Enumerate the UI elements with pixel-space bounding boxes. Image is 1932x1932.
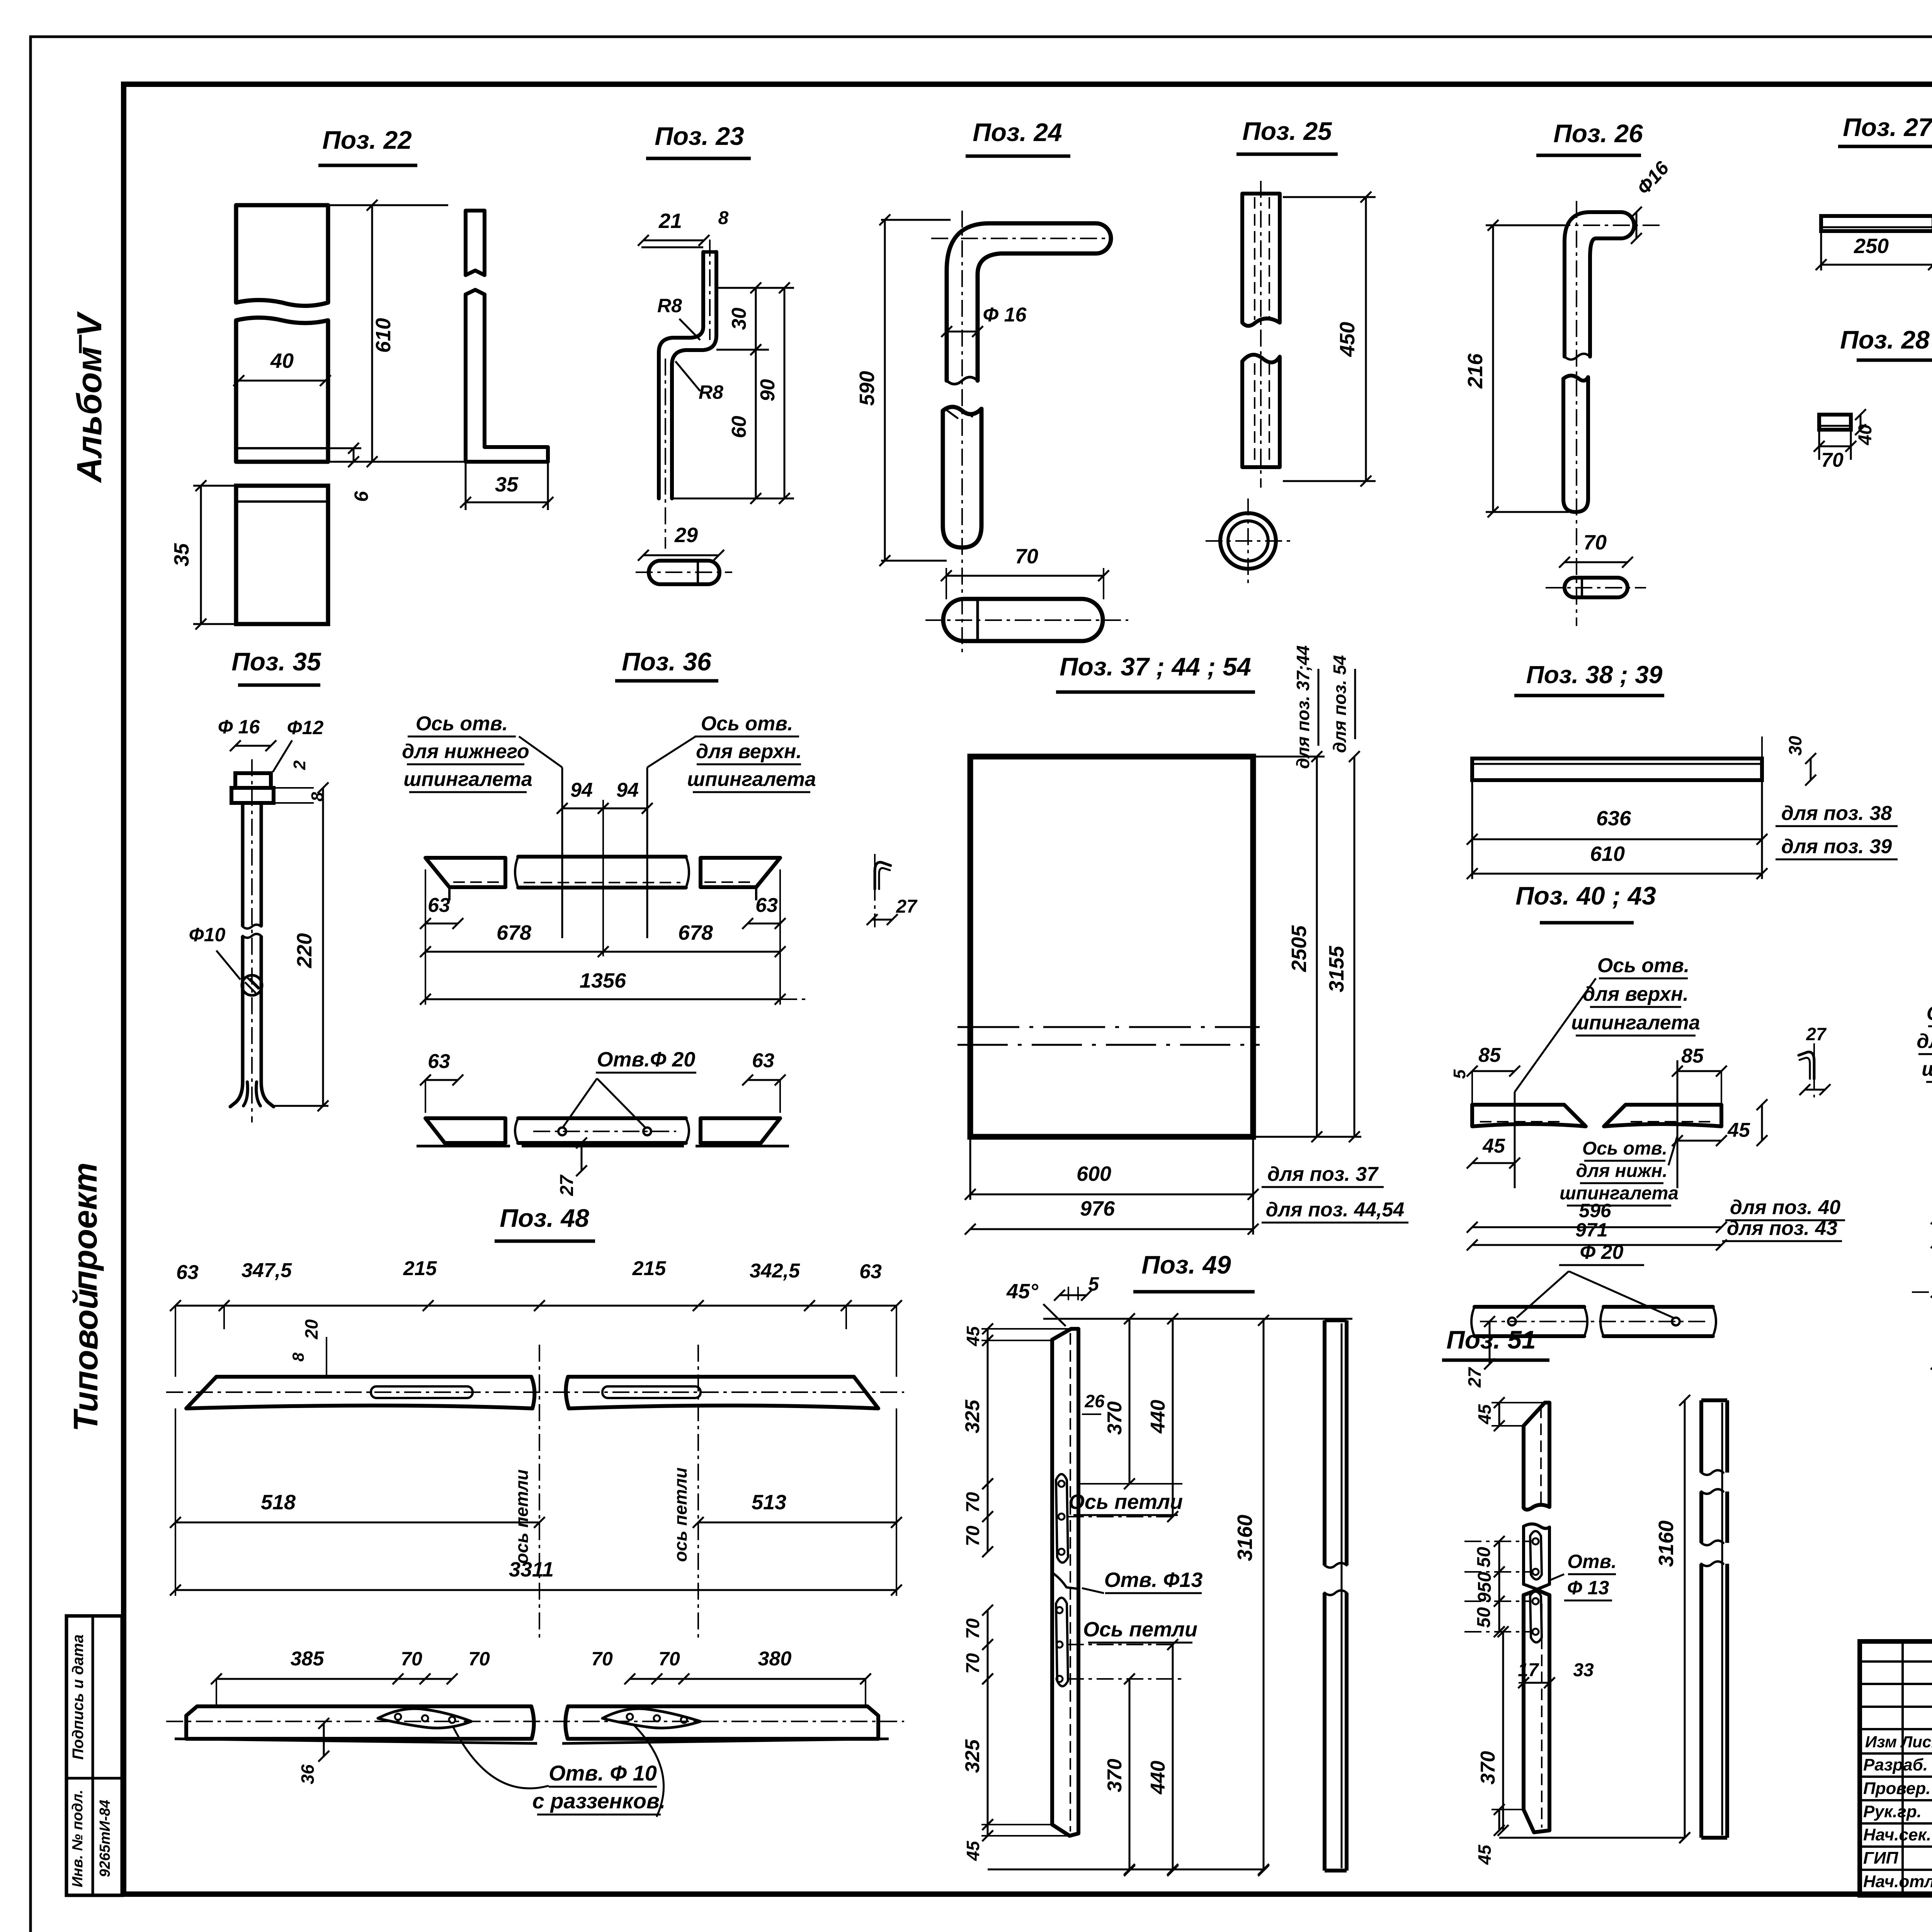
pos 48 upper strip left half bbox=[186, 1377, 534, 1408]
svg-text:Лист: Лист bbox=[1900, 1733, 1932, 1751]
svg-text:35: 35 bbox=[495, 473, 519, 496]
svg-text:для поз. 43: для поз. 43 bbox=[1727, 1217, 1837, 1240]
pos 51 dim 45 top bbox=[1498, 1403, 1500, 1426]
pos 51 dim 370 lower bbox=[1502, 1632, 1504, 1830]
pos 48 dim 518 bbox=[175, 1408, 176, 1596]
pos 23 bottom oval bbox=[649, 561, 719, 584]
pos 36 angle section icon bbox=[875, 862, 891, 889]
pos 49 dims 70 70 upper bbox=[987, 1484, 989, 1552]
pos 49 dims 70 70 lower bbox=[987, 1610, 989, 1679]
pos 26 dim 216 bbox=[1486, 224, 1565, 226]
svg-text:ось петли: ось петли bbox=[670, 1468, 690, 1562]
pos 48 upper strip center line bbox=[166, 1391, 904, 1393]
pos 40 dim 27 bottom bbox=[1489, 1321, 1491, 1364]
svg-text:3160: 3160 bbox=[1655, 1520, 1678, 1567]
svg-text:70: 70 bbox=[963, 1526, 983, 1546]
svg-text:325: 325 bbox=[961, 1400, 984, 1434]
svg-text:513: 513 bbox=[752, 1491, 786, 1514]
svg-text:2505: 2505 bbox=[1287, 925, 1311, 972]
svg-text:370: 370 bbox=[1477, 1751, 1499, 1785]
svg-text:для поз. 44,54: для поз. 44,54 bbox=[1266, 1199, 1405, 1221]
pos 25 pipe center line bbox=[1260, 181, 1262, 488]
svg-text:45: 45 bbox=[1475, 1844, 1495, 1865]
pos 23 dim 21 bbox=[641, 247, 703, 248]
svg-text:Подпись и дата: Подпись и дата bbox=[70, 1634, 87, 1760]
pos 37 sheet rectangle bbox=[970, 757, 1253, 1137]
pos 51 bottom dim line bbox=[1499, 1837, 1685, 1839]
svg-text:Поз. 23: Поз. 23 bbox=[655, 122, 744, 150]
title block signature table verticals bbox=[1901, 1641, 1904, 1895]
pos 25 pipe upper segment bbox=[1242, 194, 1280, 326]
svg-text:6: 6 bbox=[350, 491, 372, 502]
svg-text:Ф 16: Ф 16 bbox=[983, 304, 1027, 326]
svg-text:Нач.отл: Нач.отл bbox=[1863, 1872, 1932, 1891]
svg-text:342,5: 342,5 bbox=[750, 1260, 800, 1282]
svg-text:33: 33 bbox=[1573, 1660, 1594, 1680]
pos 49 dim 325 lower bbox=[987, 1679, 989, 1825]
svg-text:8: 8 bbox=[718, 208, 729, 228]
pos 35 dim 220 bbox=[274, 796, 328, 796]
pos 38 dim 636 bbox=[1471, 780, 1473, 879]
svg-text:636: 636 bbox=[1596, 807, 1631, 830]
svg-text:для нижнего: для нижнего bbox=[1917, 1030, 1932, 1053]
svg-text:21: 21 bbox=[658, 209, 682, 233]
svg-text:976: 976 bbox=[1080, 1197, 1115, 1220]
pos 35 bolt flange bbox=[231, 788, 274, 803]
svg-text:проект: проект bbox=[66, 1162, 104, 1291]
svg-text:3311: 3311 bbox=[509, 1558, 554, 1581]
pos 40 dim 45 right bbox=[1761, 1105, 1763, 1141]
svg-text:45: 45 bbox=[1475, 1404, 1495, 1425]
svg-text:63: 63 bbox=[859, 1260, 882, 1283]
svg-text:8: 8 bbox=[289, 1352, 307, 1362]
svg-text:215: 215 bbox=[632, 1257, 667, 1280]
pos 24 rod lower segment bbox=[943, 407, 981, 548]
pos 49 dim 370 upper bbox=[1129, 1319, 1131, 1484]
svg-text:Разраб.: Разраб. bbox=[1863, 1755, 1928, 1774]
pos 24 rod top break bbox=[947, 377, 978, 384]
pos 48 lower strip center line bbox=[166, 1721, 904, 1722]
pos 36 top strip middle bbox=[518, 855, 686, 859]
svg-text:27: 27 bbox=[557, 1174, 577, 1196]
svg-text:шпингалета: шпингалета bbox=[687, 768, 816, 791]
svg-text:70: 70 bbox=[658, 1648, 680, 1670]
pos 38 dim 610 bbox=[1472, 873, 1762, 875]
pos 35 fork prongs bbox=[230, 1082, 243, 1107]
pos 40 dim 596 bbox=[1472, 1226, 1721, 1228]
pos 49 dim 45 top bbox=[987, 1329, 989, 1340]
pos 37 break lines bbox=[957, 1026, 1260, 1028]
svg-text:Ф 20: Ф 20 bbox=[1580, 1241, 1624, 1264]
svg-text:70: 70 bbox=[963, 1492, 983, 1513]
svg-text:70: 70 bbox=[963, 1618, 983, 1639]
svg-text:440: 440 bbox=[1147, 1400, 1169, 1434]
svg-text:30: 30 bbox=[1785, 736, 1805, 756]
pos 40 strip left part bbox=[1472, 1105, 1586, 1126]
pos 22 angle bar upper part bbox=[466, 211, 485, 275]
pos 35 bolt head bbox=[235, 773, 271, 788]
pos 36 dim 63 top right bbox=[748, 923, 780, 925]
pos 22 dim 6 right bbox=[328, 447, 361, 449]
pos 26 dim f16 bbox=[1636, 212, 1638, 238]
svg-text:9265тИ-84: 9265тИ-84 bbox=[97, 1800, 113, 1878]
svg-text:для поз. 54: для поз. 54 bbox=[1330, 655, 1350, 753]
svg-text:70: 70 bbox=[591, 1648, 613, 1670]
svg-text:Отв.Ф 20: Отв.Ф 20 bbox=[597, 1048, 696, 1071]
svg-text:Поз. 22: Поз. 22 bbox=[322, 126, 412, 154]
pos 24 center lines bbox=[961, 211, 963, 657]
svg-text:971: 971 bbox=[1575, 1219, 1607, 1241]
svg-text:Инв. № подл.: Инв. № подл. bbox=[70, 1790, 86, 1888]
pos 51 left stile hinge segment bbox=[1524, 1524, 1549, 1589]
pos 24 dim 590 bbox=[881, 219, 951, 221]
pos 51 right bar segments bbox=[1701, 1398, 1727, 1402]
pos 38 dim 30 bbox=[1761, 736, 1763, 759]
svg-text:40: 40 bbox=[1855, 424, 1876, 446]
svg-text:70: 70 bbox=[468, 1648, 490, 1670]
svg-text:Изм: Изм bbox=[1865, 1733, 1897, 1751]
pos 48 top dim row bbox=[175, 1305, 896, 1307]
svg-text:Ось отв.: Ось отв. bbox=[416, 713, 508, 735]
pos 36 bottom strip right block bbox=[701, 1118, 780, 1143]
svg-text:Провер.: Провер. bbox=[1863, 1779, 1930, 1798]
svg-text:27: 27 bbox=[1806, 1024, 1827, 1044]
svg-text:Поз. 40 ; 43: Поз. 40 ; 43 bbox=[1515, 881, 1656, 910]
pos 40 dim 45 left bbox=[1472, 1126, 1473, 1159]
svg-text:Поз. 37 ; 44 ; 54: Поз. 37 ; 44 ; 54 bbox=[1060, 652, 1251, 681]
pos 48 dim 3311 bbox=[175, 1589, 896, 1591]
svg-text:45: 45 bbox=[1482, 1135, 1505, 1157]
svg-text:94: 94 bbox=[570, 779, 593, 801]
pos 49 upper hinge slot bbox=[1056, 1474, 1068, 1563]
pos 36 dim 1356 bbox=[425, 998, 780, 1000]
svg-text:60: 60 bbox=[728, 416, 750, 438]
svg-text:70: 70 bbox=[1015, 545, 1038, 568]
svg-text:380: 380 bbox=[758, 1648, 792, 1670]
svg-text:с раззенков.: с раззенков. bbox=[532, 1789, 666, 1813]
svg-text:1356: 1356 bbox=[580, 969, 626, 992]
pos 49 dim 440 lower bbox=[1172, 1645, 1174, 1871]
svg-text:Альбом V: Альбом V bbox=[70, 311, 109, 483]
pos 35 bolt shaft lower bbox=[241, 936, 245, 1082]
pos 51 left stile upper segment bbox=[1524, 1403, 1549, 1510]
pos 49 mid notch and leader bbox=[1052, 1573, 1078, 1589]
pos 23 strip center line bbox=[709, 240, 711, 340]
svg-text:385: 385 bbox=[291, 1648, 325, 1670]
pos 40 axes bbox=[1514, 1092, 1516, 1188]
pos 22 dim 40 bbox=[239, 380, 325, 382]
svg-text:600: 600 bbox=[1077, 1162, 1111, 1185]
svg-text:2: 2 bbox=[290, 760, 309, 770]
svg-text:36: 36 bbox=[298, 1764, 318, 1784]
pos 49 dim 440 upper bbox=[1172, 1319, 1174, 1517]
svg-text:85: 85 bbox=[1478, 1044, 1501, 1066]
svg-text:370: 370 bbox=[1104, 1401, 1126, 1435]
svg-text:220: 220 bbox=[293, 933, 316, 968]
svg-text:63: 63 bbox=[755, 894, 778, 917]
svg-text:29: 29 bbox=[674, 524, 698, 547]
svg-text:215: 215 bbox=[403, 1257, 437, 1280]
svg-text:63: 63 bbox=[428, 894, 450, 917]
pos 51 lower hinge segment bbox=[1524, 1590, 1549, 1832]
pos 22 dim 610 bbox=[328, 204, 448, 206]
pos 23 dim 29 bbox=[643, 554, 719, 556]
pos 28 small bar bbox=[1819, 415, 1851, 430]
pos 40 icon dim 27 bbox=[1805, 1089, 1825, 1091]
svg-text:347,5: 347,5 bbox=[241, 1259, 292, 1282]
pos 26 rod lower segment bbox=[1563, 376, 1588, 512]
pos 40 bottom strip left bbox=[1475, 1305, 1584, 1309]
pos 26 rod hook bbox=[1565, 212, 1621, 357]
bottom-left stamp table bbox=[66, 1616, 122, 1895]
pos 28 dim 40 bbox=[1860, 415, 1862, 430]
pos 48 dim 513 bbox=[698, 1522, 896, 1524]
pos 49 dim 325 upper bbox=[987, 1340, 989, 1484]
pos 49 lower hinge slot bbox=[1056, 1598, 1068, 1686]
svg-text:Ось отв.: Ось отв. bbox=[1582, 1138, 1667, 1159]
svg-text:Поз. 28: Поз. 28 bbox=[1840, 325, 1930, 354]
pos 40 strip right part bbox=[1604, 1105, 1721, 1126]
pos 22 plate lower segment bbox=[236, 486, 328, 624]
svg-text:Ось петли: Ось петли bbox=[1083, 1618, 1197, 1641]
svg-text:45°: 45° bbox=[1006, 1280, 1038, 1303]
svg-text:для поз. 40: для поз. 40 bbox=[1730, 1196, 1840, 1219]
svg-text:45: 45 bbox=[963, 1840, 983, 1861]
pos 26 bottom oval bbox=[1565, 578, 1628, 597]
svg-text:шпингалета: шпингалета bbox=[403, 768, 532, 791]
svg-text:63: 63 bbox=[752, 1049, 774, 1072]
svg-text:Нач.сек.: Нач.сек. bbox=[1863, 1825, 1931, 1844]
pos 22 angle bar lower part with foot bbox=[466, 290, 548, 462]
pos 36 dim 678 678 bbox=[425, 951, 780, 953]
pos 40 dim 971 bbox=[1472, 1244, 1721, 1246]
svg-text:35: 35 bbox=[170, 543, 193, 566]
svg-text:8: 8 bbox=[308, 792, 327, 801]
svg-text:для поз. 38: для поз. 38 bbox=[1781, 802, 1892, 825]
pos 23 dim 30 bbox=[716, 287, 794, 289]
svg-text:70: 70 bbox=[1583, 531, 1607, 554]
pos 35 bolt shaft upper bbox=[241, 803, 245, 927]
pos 35 center line bbox=[251, 759, 253, 1122]
svg-text:Отв. Ф 10: Отв. Ф 10 bbox=[549, 1761, 657, 1785]
svg-text:590: 590 bbox=[855, 371, 879, 406]
pos 25 pipe section circle bbox=[1220, 513, 1276, 569]
svg-text:шпингалета: шпингалета bbox=[1571, 1012, 1700, 1034]
pos 36 dim 27 bbox=[562, 1131, 582, 1132]
svg-text:для поз. 37: для поз. 37 bbox=[1267, 1163, 1379, 1185]
pos 28 dim 70 bbox=[1818, 430, 1820, 460]
pos 48 upper strip right half bbox=[566, 1377, 878, 1408]
pos 26 dim 70 bbox=[1565, 561, 1628, 563]
pos 38 flat bar bbox=[1472, 759, 1762, 780]
pos 27 dim 250 bbox=[1820, 231, 1822, 270]
svg-text:45: 45 bbox=[1727, 1119, 1750, 1141]
svg-text:610: 610 bbox=[372, 318, 395, 353]
svg-text:ГИП: ГИП bbox=[1863, 1849, 1899, 1867]
svg-text:Ось отв.: Ось отв. bbox=[701, 713, 793, 735]
pos 36 dim 63 bottom right bbox=[748, 1079, 780, 1081]
svg-text:для поз. 39: для поз. 39 bbox=[1781, 835, 1892, 858]
pos 36 angle icon dim 27 bbox=[872, 919, 892, 921]
svg-text:250: 250 bbox=[1854, 235, 1889, 258]
pos 24 dim f16 bbox=[947, 331, 978, 333]
pos 35 cross hole hatched bbox=[242, 975, 262, 995]
pos 36 top strip left block bbox=[425, 858, 505, 887]
svg-text:Поз. 38 ; 39: Поз. 38 ; 39 bbox=[1526, 661, 1663, 689]
pos 48 lower strip left half bbox=[186, 1706, 534, 1739]
pos 37 dim 3155 bbox=[1354, 757, 1355, 1137]
pos 49 dim 45 bottom bbox=[987, 1825, 989, 1836]
pos 23 dim 90 bbox=[784, 288, 786, 498]
svg-text:370: 370 bbox=[1104, 1759, 1126, 1793]
pos 36 dim 63 top left bbox=[425, 923, 458, 925]
pos 51 lower slot with holes bbox=[1530, 1592, 1542, 1643]
svg-text:50: 50 bbox=[1474, 1607, 1494, 1628]
pos 51 dim 45 bottom bbox=[1498, 1810, 1500, 1830]
pos 48 lower strip hinge plates bbox=[378, 1709, 471, 1728]
svg-text:Поз. 27: Поз. 27 bbox=[1843, 113, 1932, 141]
svg-text:610: 610 bbox=[1590, 842, 1625, 866]
pos 40 bottom strip right bbox=[1604, 1305, 1713, 1309]
pos 36 bottom strip middle bbox=[518, 1116, 686, 1120]
svg-text:Поз. 36: Поз. 36 bbox=[622, 647, 712, 676]
svg-text:85: 85 bbox=[1681, 1045, 1704, 1067]
svg-text:27: 27 bbox=[896, 896, 918, 917]
svg-text:Поз. 35: Поз. 35 bbox=[231, 647, 321, 676]
pos 51 dims 50 950 50 bbox=[1498, 1541, 1500, 1632]
pos 49 right bar bbox=[1323, 1320, 1327, 1565]
svg-text:для верхн.: для верхн. bbox=[1583, 983, 1689, 1005]
title block outer bbox=[1860, 1641, 1932, 1895]
svg-text:для верхн.: для верхн. bbox=[696, 740, 802, 763]
svg-text:518: 518 bbox=[261, 1491, 296, 1514]
pos 49 bottom dim line bbox=[988, 1869, 1264, 1871]
svg-text:Поз. 24: Поз. 24 bbox=[973, 118, 1062, 146]
pos 48 dim 36 bbox=[323, 1723, 325, 1756]
svg-text:Отв.: Отв. bbox=[1567, 1551, 1616, 1572]
title block signature table horizontals bbox=[1860, 1660, 1932, 1663]
svg-text:678: 678 bbox=[678, 921, 713, 944]
svg-text:Поз. 25: Поз. 25 bbox=[1242, 117, 1332, 145]
svg-text:440: 440 bbox=[1147, 1761, 1169, 1795]
pos 36 bottom strip left block bbox=[425, 1118, 505, 1143]
svg-text:70: 70 bbox=[963, 1653, 983, 1674]
svg-text:3160: 3160 bbox=[1233, 1515, 1257, 1561]
pos 40 angle section icon bbox=[1799, 1052, 1814, 1079]
pos 51 dim 3160 bbox=[1684, 1400, 1686, 1838]
svg-text:Поз. 51: Поз. 51 bbox=[1446, 1325, 1536, 1354]
svg-text:Ф10: Ф10 bbox=[189, 924, 226, 946]
svg-text:63: 63 bbox=[428, 1050, 450, 1073]
svg-text:950: 950 bbox=[1475, 1572, 1495, 1603]
pos 22 plate upper segment bbox=[236, 205, 328, 306]
svg-text:Отв. Ф13: Отв. Ф13 bbox=[1104, 1568, 1203, 1592]
pos 24 rod top hook bbox=[947, 223, 1096, 381]
pos 26 center lines bbox=[1576, 201, 1577, 626]
pos 48 lower strip right half bbox=[565, 1706, 878, 1739]
svg-text:3155: 3155 bbox=[1325, 946, 1348, 992]
pos 49 dim 370 lower bbox=[1129, 1679, 1131, 1871]
pos 36 top strip right block bbox=[701, 858, 780, 887]
svg-text:для нижн.: для нижн. bbox=[1576, 1161, 1667, 1181]
pos 24 rod bottom piece bbox=[943, 599, 1103, 641]
pos 23 dim 60 bbox=[672, 498, 794, 500]
pos 48 lower dim row bbox=[216, 1678, 452, 1680]
pos 22 plate middle segment bbox=[236, 318, 328, 462]
pos 25 pipe lower segment bbox=[1242, 355, 1280, 467]
svg-text:шпингалета: шпингалета bbox=[1922, 1058, 1932, 1080]
svg-text:Ось отв.: Ось отв. bbox=[1927, 1002, 1932, 1025]
svg-text:Ось петли: Ось петли bbox=[1068, 1490, 1183, 1514]
pos 49 left stile outline bbox=[1052, 1329, 1078, 1836]
pos 22 dim 35 left bbox=[193, 485, 236, 487]
svg-text:450: 450 bbox=[1336, 322, 1359, 357]
svg-text:70: 70 bbox=[401, 1648, 422, 1670]
svg-text:5: 5 bbox=[1450, 1069, 1469, 1079]
svg-text:Рук.гр.: Рук.гр. bbox=[1863, 1802, 1922, 1821]
svg-text:Поз. 49: Поз. 49 bbox=[1141, 1250, 1231, 1279]
pos 23 bent strip outline bbox=[672, 252, 716, 498]
pos 49 dim 3160 bbox=[1263, 1320, 1265, 1871]
pos 51 upper slot with holes bbox=[1530, 1531, 1542, 1580]
pos 27 flat bar bbox=[1821, 216, 1932, 231]
svg-text:для поз. 37;44: для поз. 37;44 bbox=[1293, 645, 1313, 769]
svg-text:20: 20 bbox=[301, 1319, 321, 1340]
svg-text:26: 26 bbox=[1084, 1391, 1105, 1411]
pos 37 dim 2505 bbox=[1253, 756, 1325, 758]
svg-text:94: 94 bbox=[616, 779, 639, 801]
svg-text:шпингалета: шпингалета bbox=[1560, 1183, 1679, 1204]
svg-text:Поз. 26: Поз. 26 bbox=[1553, 119, 1643, 148]
svg-text:40: 40 bbox=[270, 349, 294, 372]
svg-text:30: 30 bbox=[728, 308, 750, 330]
svg-text:Ф 13: Ф 13 bbox=[1567, 1577, 1609, 1599]
svg-text:70: 70 bbox=[1821, 449, 1844, 471]
pos 25 dim 450 bbox=[1283, 196, 1376, 198]
svg-text:Ось отв.: Ось отв. bbox=[1597, 954, 1690, 977]
svg-text:216: 216 bbox=[1464, 353, 1487, 389]
svg-text:325: 325 bbox=[961, 1739, 984, 1773]
svg-text:63: 63 bbox=[176, 1261, 199, 1284]
svg-text:596: 596 bbox=[1579, 1200, 1612, 1221]
svg-text:Ф 16: Ф 16 bbox=[218, 716, 260, 738]
svg-text:для нижнего: для нижнего bbox=[402, 740, 529, 763]
pos 22 dim 35 foot bbox=[465, 462, 467, 510]
svg-text:R8: R8 bbox=[699, 381, 723, 403]
pos 48 hinge axes bbox=[539, 1345, 540, 1642]
svg-text:R8: R8 bbox=[657, 295, 682, 316]
svg-text:45: 45 bbox=[963, 1326, 983, 1347]
svg-text:Поз. 48: Поз. 48 bbox=[500, 1204, 589, 1232]
pos 35 dims 2 8 bbox=[274, 787, 314, 789]
pos 48 upper strip slots bbox=[371, 1386, 473, 1398]
svg-text:678: 678 bbox=[497, 921, 531, 944]
svg-text:Ф12: Ф12 bbox=[287, 717, 324, 738]
pos 37 dim 600 bbox=[969, 1137, 971, 1200]
pos 36 axes verticals bbox=[561, 767, 563, 938]
pos 37 dim 976 bbox=[970, 1228, 1253, 1230]
pos 36 dim 63 bottom left bbox=[425, 1079, 458, 1081]
svg-text:27: 27 bbox=[1464, 1367, 1485, 1388]
svg-text:ось петли: ось петли bbox=[512, 1469, 532, 1564]
pos 24 dim 70 bbox=[946, 568, 947, 599]
svg-text:Типовой: Типовой bbox=[66, 1289, 105, 1432]
svg-text:50: 50 bbox=[1474, 1547, 1494, 1568]
svg-text:90: 90 bbox=[757, 379, 779, 401]
